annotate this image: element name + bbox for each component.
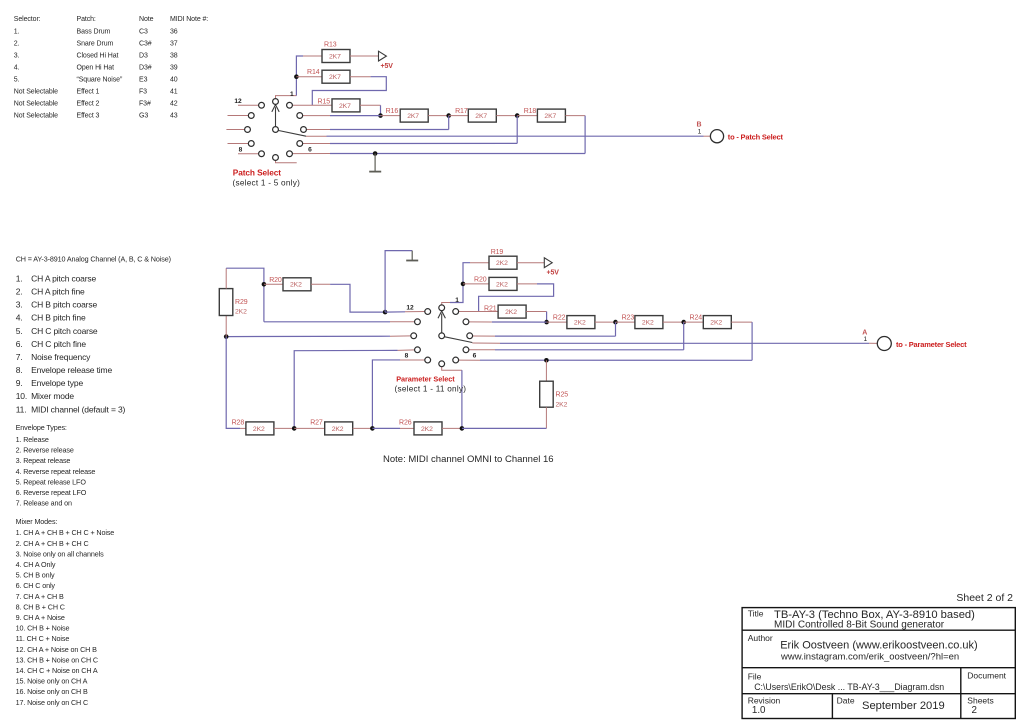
svg-text:Parameter Select: Parameter Select — [396, 375, 455, 384]
svg-text:2K2: 2K2 — [332, 426, 344, 433]
wire pin9 line down to R28 node — [398, 349, 415, 352]
svg-text:CH = AY-3-8910 Analog Channel: CH = AY-3-8910 Analog Channel (A, B, C &… — [16, 255, 171, 264]
svg-text:9.: 9. — [16, 378, 23, 388]
svg-text:(select 1 - 11 only): (select 1 - 11 only) — [395, 385, 467, 394]
svg-text:1. Release: 1. Release — [16, 435, 49, 444]
svg-text:11. CH C + Noise: 11. CH C + Noise — [16, 634, 70, 643]
wire R26 right — [442, 427, 462, 429]
wire pin8 line down to R27 node — [400, 359, 425, 361]
svg-text:R17: R17 — [455, 108, 468, 115]
svg-text:Sheet 2 of 2: Sheet 2 of 2 — [956, 592, 1013, 604]
wiper arm — [441, 314, 443, 333]
svg-text:8. CH B + CH C: 8. CH B + CH C — [16, 602, 65, 611]
rotary switch SW Parameter Select — [405, 305, 477, 367]
svg-text:Envelope Types:: Envelope Types: — [16, 423, 67, 432]
svg-text:Note: Note — [139, 16, 154, 23]
svg-text:3. Repeat release: 3. Repeat release — [16, 456, 71, 465]
svg-text:1: 1 — [863, 336, 867, 343]
pin stub 8 — [238, 153, 259, 155]
svg-text:6: 6 — [308, 146, 312, 153]
center pole — [273, 127, 279, 133]
svg-text:R14: R14 — [307, 69, 320, 76]
svg-text:3.: 3. — [16, 300, 23, 310]
svg-text:Snare Drum: Snare Drum — [77, 41, 114, 48]
wire R22 right — [595, 321, 616, 323]
svg-text:5.: 5. — [16, 326, 23, 336]
svg-text:8.: 8. — [16, 365, 23, 375]
ground — [369, 154, 381, 172]
wire node down to pin4 line — [615, 322, 617, 336]
svg-text:Mixer mode: Mixer mode — [31, 391, 74, 401]
svg-text:C:\Users\ErikO\Desk ... TB-AY-: C:\Users\ErikO\Desk ... TB-AY-3___Diagra… — [754, 682, 944, 692]
wire R28 left — [240, 427, 246, 429]
wire pin5 line — [303, 143, 330, 145]
svg-text:1.0: 1.0 — [752, 705, 766, 716]
wire R16 right — [428, 115, 449, 117]
svg-text:September 2019: September 2019 — [862, 700, 945, 712]
svg-text:MIDI channel (default = 3): MIDI channel (default = 3) — [31, 404, 125, 414]
svg-text:10. CH B + Noise: 10. CH B + Noise — [16, 624, 70, 633]
svg-text:39: 39 — [170, 65, 178, 72]
wire R26 left — [372, 427, 400, 429]
wire node down to pin5 line — [683, 322, 685, 350]
svg-text:R16: R16 — [386, 108, 399, 115]
svg-text:Closed Hi Hat: Closed Hi Hat — [77, 53, 119, 60]
svg-text:3. Noise only on all channels: 3. Noise only on all channels — [16, 549, 105, 558]
svg-text:17. Noise only on CH C: 17. Noise only on CH C — [16, 698, 88, 707]
node R23/R24 — [681, 320, 686, 325]
svg-text:CH C pitch coarse: CH C pitch coarse — [31, 326, 98, 336]
svg-text:4. CH A Only: 4. CH A Only — [16, 560, 56, 569]
wire R21 right down to pin3 line — [526, 311, 547, 313]
svg-text:41: 41 — [170, 89, 178, 96]
wire R24 left — [684, 321, 704, 323]
wire pin1 riser — [442, 303, 450, 305]
svg-text:40: 40 — [170, 77, 178, 84]
svg-text:Date: Date — [837, 695, 855, 705]
node R26/R25 — [460, 426, 465, 431]
svg-text:14. CH C + Noise on CH A: 14. CH C + Noise on CH A — [16, 666, 98, 675]
svg-text:to - Patch Select: to - Patch Select — [728, 132, 784, 141]
svg-text:Note: MIDI channel OMNI to Cha: Note: MIDI channel OMNI to Channel 16 — [383, 454, 554, 465]
node R16/R17 — [446, 113, 451, 118]
+5V supply — [544, 258, 559, 277]
wire ground riser — [385, 251, 412, 313]
svg-text:1. CH A + CH B + CH C + Noise: 1. CH A + CH B + CH C + Noise — [16, 528, 115, 537]
svg-text:D3#: D3# — [139, 65, 152, 72]
svg-text:www.instagram.com/erik_oostvee: www.instagram.com/erik_oostveen/?hl=en — [780, 652, 959, 663]
svg-text:R19: R19 — [491, 249, 504, 256]
svg-text:7.: 7. — [16, 352, 23, 362]
svg-text:Patch Select: Patch Select — [233, 168, 281, 178]
svg-text:R23: R23 — [622, 315, 635, 322]
node R27/R26 — [370, 426, 375, 431]
svg-text:R27: R27 — [310, 419, 323, 426]
connector A to -Parameter Select — [862, 330, 967, 351]
svg-text:2K2: 2K2 — [556, 402, 568, 409]
resistor R17 — [455, 108, 496, 122]
svg-text:Effect 3: Effect 3 — [77, 113, 100, 120]
svg-text:6. Reverse repeat LFO: 6. Reverse repeat LFO — [16, 488, 87, 497]
wire R23 left — [616, 321, 635, 323]
resistor R28 — [232, 419, 274, 435]
svg-text:C3#: C3# — [139, 41, 152, 48]
wiper arm to common — [276, 130, 306, 136]
svg-text:1: 1 — [455, 297, 459, 304]
wire R20 lower right to pin12 line — [311, 283, 330, 285]
ground — [406, 251, 418, 261]
svg-text:R13: R13 — [324, 42, 337, 49]
wire R13 to +5V — [350, 55, 379, 57]
svg-text:1: 1 — [698, 128, 702, 135]
resistor R18 — [524, 108, 566, 122]
svg-text:CH B pitch coarse: CH B pitch coarse — [31, 300, 97, 310]
wire R29 top to pin11 line — [226, 268, 264, 322]
wire common line to output A — [472, 342, 500, 344]
wire R13 left — [303, 55, 322, 57]
svg-text:1.: 1. — [14, 29, 20, 36]
svg-text:3.: 3. — [14, 53, 20, 60]
svg-text:36: 36 — [170, 29, 178, 36]
wire pin2 to R15 — [292, 104, 332, 106]
wire pin6 line — [459, 359, 480, 361]
svg-text:R26: R26 — [399, 419, 412, 426]
svg-text:12: 12 — [234, 98, 242, 105]
node ground tap — [373, 151, 378, 156]
svg-text:2K2: 2K2 — [496, 260, 508, 267]
svg-text:File: File — [748, 671, 762, 681]
svg-text:2K2: 2K2 — [253, 426, 265, 433]
resistor R21 — [484, 305, 526, 318]
wire pin12 line — [385, 311, 405, 313]
svg-text:Selector:: Selector: — [14, 16, 41, 23]
svg-text:MIDI Note #:: MIDI Note #: — [170, 16, 208, 23]
wire pin4 line — [306, 129, 330, 131]
node R28/R27 — [292, 426, 297, 431]
resistor R23 — [622, 315, 663, 329]
wire R15 right down to pin3 line — [360, 104, 381, 106]
svg-text:F3#: F3# — [139, 101, 151, 108]
node R22/R23 — [613, 320, 618, 325]
svg-text:8: 8 — [239, 146, 243, 153]
svg-text:1: 1 — [290, 91, 294, 98]
svg-text:Title: Title — [748, 609, 764, 619]
wire R19 to +5V — [517, 262, 544, 264]
svg-text:R15: R15 — [318, 98, 331, 105]
svg-text:2K2: 2K2 — [642, 320, 654, 327]
svg-text:+5V: +5V — [547, 270, 560, 277]
wire common line to output B — [306, 135, 327, 137]
resistor R19 — [489, 249, 517, 269]
wire R27 left — [294, 427, 325, 429]
svg-text:2K2: 2K2 — [421, 426, 433, 433]
svg-text:13. CH B + Noise on CH C: 13. CH B + Noise on CH C — [16, 655, 98, 664]
svg-text:2K7: 2K7 — [475, 113, 487, 120]
wire pin3 line — [469, 321, 492, 323]
resistor R24 — [690, 315, 732, 329]
svg-text:Revision: Revision — [748, 695, 781, 705]
svg-text:1.: 1. — [16, 274, 23, 284]
svg-text:7. Release and on: 7. Release and on — [16, 499, 72, 508]
node ground riser — [383, 310, 388, 315]
svg-text:Not Selectable: Not Selectable — [14, 113, 58, 120]
svg-text:Document: Document — [967, 671, 1006, 681]
svg-text:2K7: 2K7 — [329, 74, 341, 81]
svg-text:Effect 2: Effect 2 — [77, 101, 100, 108]
pin stub 9 — [228, 143, 249, 145]
wire pin6 line — [292, 153, 330, 155]
resistor R16 — [386, 108, 429, 122]
resistor R26 — [399, 419, 442, 435]
node R20 lower tap — [262, 282, 267, 287]
wire pin1 to R13/R14 riser — [276, 96, 297, 99]
wire R14 right to pin2 line — [350, 76, 371, 78]
wire pin4 line — [473, 335, 495, 337]
resistor R27 — [310, 419, 353, 435]
svg-text:Envelope type: Envelope type — [31, 378, 83, 388]
svg-text:2. CH A + CH B + CH C: 2. CH A + CH B + CH C — [16, 539, 89, 548]
svg-text:Noise frequency: Noise frequency — [31, 352, 91, 362]
pin stub 7 — [276, 160, 297, 162]
wire R27 right — [353, 427, 373, 429]
svg-text:D3: D3 — [139, 53, 148, 60]
svg-text:11.: 11. — [16, 404, 27, 414]
svg-text:R18: R18 — [524, 108, 537, 115]
svg-text:16. Noise only on CH B: 16. Noise only on CH B — [16, 687, 88, 696]
wire bottom row left riser — [226, 337, 240, 429]
svg-text:Author: Author — [748, 633, 773, 643]
wire pin5 line — [469, 349, 495, 351]
node R25 top — [544, 358, 549, 363]
svg-text:2.: 2. — [14, 41, 20, 48]
svg-text:2K2: 2K2 — [710, 320, 722, 327]
wire R23 right — [663, 321, 684, 323]
svg-text:CH A pitch fine: CH A pitch fine — [31, 287, 85, 297]
svg-text:MIDI Controlled 8-Bit Sound ge: MIDI Controlled 8-Bit Sound generator — [774, 620, 945, 631]
svg-text:“Square Noise”: “Square Noise” — [77, 77, 123, 84]
svg-text:38: 38 — [170, 53, 178, 60]
svg-text:2. Reverse release: 2. Reverse release — [16, 446, 74, 455]
svg-text:2K7: 2K7 — [407, 113, 419, 120]
svg-text:2K2: 2K2 — [574, 320, 586, 327]
svg-text:R20: R20 — [474, 277, 487, 284]
wire riser blue — [296, 56, 303, 96]
svg-text:CH A pitch coarse: CH A pitch coarse — [31, 274, 96, 284]
svg-text:8: 8 — [405, 353, 409, 360]
svg-text:R20: R20 — [269, 277, 282, 284]
svg-text:4. Reverse repeat release: 4. Reverse repeat release — [16, 467, 96, 476]
rotary switch SW Patch Select — [226, 98, 312, 163]
svg-text:Open Hi Hat: Open Hi Hat — [77, 65, 115, 72]
svg-text:Mixer Modes:: Mixer Modes: — [16, 517, 58, 526]
svg-text:2K7: 2K7 — [339, 103, 351, 110]
svg-text:6. CH C only: 6. CH C only — [16, 581, 56, 590]
svg-text:G3: G3 — [139, 113, 148, 120]
svg-text:5. CH B only: 5. CH B only — [16, 571, 55, 580]
svg-text:R21: R21 — [484, 305, 497, 312]
pin stub 12 — [238, 104, 259, 106]
svg-text:R22: R22 — [553, 315, 566, 322]
svg-text:2: 2 — [972, 705, 977, 716]
wire pin3 line — [303, 115, 330, 117]
svg-text:Bass Drum: Bass Drum — [77, 29, 111, 36]
svg-text:4.: 4. — [14, 65, 20, 72]
wire R14 left — [296, 76, 322, 78]
pin stub 10 — [226, 129, 244, 131]
svg-text:2K2: 2K2 — [505, 309, 517, 316]
svg-text:7. CH A + CH B: 7. CH A + CH B — [16, 592, 64, 601]
svg-text:10.: 10. — [16, 391, 27, 401]
wire R28 right — [274, 427, 294, 429]
svg-text:6: 6 — [473, 353, 477, 360]
resistor R20 (upper) — [474, 277, 517, 291]
pin stub 11 — [228, 115, 249, 117]
svg-text:Not Selectable: Not Selectable — [14, 89, 58, 96]
svg-text:Patch:: Patch: — [77, 16, 96, 23]
svg-text:2K7: 2K7 — [329, 53, 341, 60]
wire node down to pin4 line — [448, 116, 450, 130]
wire pin11 line — [264, 321, 390, 323]
resistor R14 — [307, 69, 350, 83]
wire pin7 stub down to R26 node — [442, 367, 462, 371]
node R29 bottom — [224, 334, 229, 339]
svg-text:5.: 5. — [14, 77, 20, 84]
svg-text:43: 43 — [170, 113, 178, 120]
wire R17 left — [449, 115, 469, 117]
wire R17 right — [496, 115, 517, 117]
svg-text:12: 12 — [406, 305, 414, 312]
svg-text:CH B pitch fine: CH B pitch fine — [31, 313, 86, 323]
resistor R25 (vertical) — [540, 360, 569, 428]
svg-text:Sheets: Sheets — [967, 695, 993, 705]
svg-text:2K2: 2K2 — [235, 309, 247, 316]
svg-text:Not Selectable: Not Selectable — [14, 101, 58, 108]
svg-text:12. CH A + Noise on CH B: 12. CH A + Noise on CH B — [16, 645, 98, 654]
svg-text:5. Repeat release LFO: 5. Repeat release LFO — [16, 477, 87, 486]
node junction R20 tap — [461, 282, 466, 287]
svg-text:42: 42 — [170, 101, 178, 108]
svg-text:Envelope release time: Envelope release time — [31, 365, 112, 375]
node R17/R18 — [515, 113, 520, 118]
svg-text:R29: R29 — [235, 299, 248, 306]
svg-text:to - Parameter Select: to - Parameter Select — [896, 340, 967, 349]
resistor R29 (vertical) — [219, 268, 247, 336]
+5V supply — [379, 51, 394, 70]
svg-text:(select 1 - 5 only): (select 1 - 5 only) — [233, 179, 301, 188]
svg-text:R25: R25 — [556, 392, 569, 399]
svg-text:2K2: 2K2 — [290, 282, 302, 289]
resistor R13 — [322, 42, 350, 63]
svg-text:Erik Oostveen (www.erikoostvee: Erik Oostveen (www.erikoostveen.co.uk) — [780, 640, 977, 652]
wire R19 left — [470, 262, 489, 264]
switch contacts — [273, 99, 279, 105]
svg-text:+5V: +5V — [381, 63, 394, 70]
node R15/R16 — [378, 113, 383, 118]
switch contacts — [439, 305, 445, 311]
node R21/R22 — [544, 320, 549, 325]
svg-text:R24: R24 — [690, 315, 703, 322]
wire R18 right down to pin6 line — [565, 115, 585, 117]
wiper arm to common — [442, 336, 472, 342]
wiper arm — [275, 107, 277, 126]
center pole — [439, 333, 445, 339]
svg-text:C3: C3 — [139, 29, 148, 36]
wire R20 right to pin2 — [517, 283, 537, 285]
wire R20 lower left — [264, 283, 283, 285]
node junction R14 tap — [294, 74, 299, 79]
resistor R22 — [553, 315, 595, 329]
wire R26 node to R25 bottom — [462, 427, 547, 429]
connector B to -Patch Select — [697, 122, 784, 143]
svg-text:6.: 6. — [16, 339, 23, 349]
svg-text:4.: 4. — [16, 313, 23, 323]
svg-text:2K2: 2K2 — [496, 281, 508, 288]
svg-text:37: 37 — [170, 41, 178, 48]
wire R20 left — [463, 283, 489, 285]
svg-text:R28: R28 — [232, 419, 245, 426]
wire pin10 line to R29 — [390, 335, 411, 337]
wire node down to pin5 line — [516, 116, 518, 144]
svg-text:15. Noise only on CH A: 15. Noise only on CH A — [16, 677, 88, 686]
wire R24 right down to pin6 line — [731, 321, 752, 323]
wire pin2 to R21 — [459, 311, 499, 313]
resistor R20 (lower) — [269, 277, 311, 291]
svg-text:E3: E3 — [139, 77, 148, 84]
svg-text:9. CH A + Noise: 9. CH A + Noise — [16, 613, 65, 622]
wire R18 left — [517, 115, 537, 117]
svg-text:F3: F3 — [139, 89, 147, 96]
svg-text:CH C pitch fine: CH C pitch fine — [31, 339, 86, 349]
svg-text:2K7: 2K7 — [544, 113, 556, 120]
svg-text:Effect 1: Effect 1 — [77, 89, 100, 96]
svg-text:2.: 2. — [16, 287, 23, 297]
resistor R15 — [318, 98, 361, 112]
